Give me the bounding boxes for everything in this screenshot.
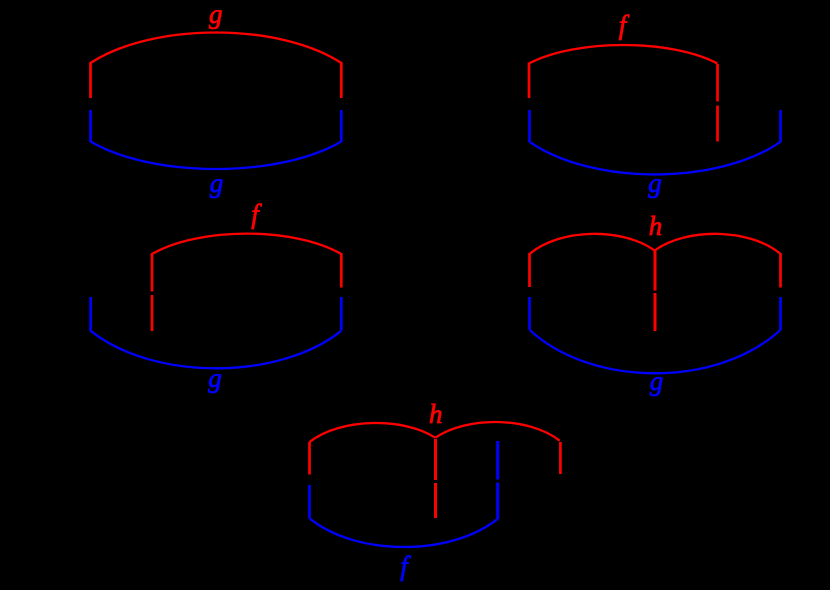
- group 1: red overbrace g: [91, 32, 342, 63]
- group 1: blue underbrace g: [91, 142, 342, 170]
- group 4: blue underbrace g: [530, 330, 781, 374]
- group 5: blue tall leg upper: [496, 441, 499, 480]
- group 5: blue underbrace left leg: [308, 485, 311, 518]
- group 4: red overbrace left leg: [528, 253, 531, 287]
- group 5: red center pointer upper: [434, 439, 437, 480]
- group 4: red overbrace h left arc: [530, 234, 655, 254]
- group 2: blue underbrace g: [530, 142, 781, 175]
- group 5: red center pointer lower: [434, 483, 437, 518]
- group 2: blue underbrace left leg: [528, 110, 531, 142]
- group 3: blue underbrace g: [91, 331, 342, 369]
- svg-text:g: g: [650, 366, 664, 396]
- group 5: red overbrace h left arc: [310, 423, 436, 442]
- group 3: red overbrace left long leg upper: [151, 253, 154, 292]
- group 3: red overbrace left long leg lower: [151, 295, 154, 331]
- group 4: red overbrace h right arc: [655, 234, 781, 254]
- group 3: blue underbrace left leg: [89, 297, 92, 331]
- group 4: red overbrace right leg: [779, 253, 782, 288]
- group 2: red overbrace right long leg upper: [716, 64, 719, 102]
- group 1: red overbrace right leg: [340, 62, 343, 98]
- group 1: blue underbrace left leg: [89, 110, 92, 142]
- group 2: blue underbrace right leg: [779, 110, 782, 142]
- group 5: blue tall leg lower: [496, 483, 499, 520]
- group 3: red overbrace f: [152, 234, 341, 254]
- group 4: red center pointer lower: [654, 293, 657, 331]
- group 5: red overbrace h right arc: [435, 422, 559, 441]
- svg-text:g: g: [648, 168, 662, 198]
- group 1: blue underbrace right leg: [340, 110, 343, 142]
- group 2: red overbrace f: [529, 45, 718, 64]
- group 2: red overbrace left leg: [528, 63, 531, 99]
- group 4: blue underbrace left leg: [528, 297, 531, 330]
- group 1: red overbrace left leg: [89, 62, 92, 98]
- group 5: red overbrace right leg: [559, 442, 562, 474]
- svg-text:h: h: [429, 399, 443, 429]
- group 5: red overbrace left leg: [308, 442, 311, 475]
- group 2: red overbrace right long leg lower: [716, 106, 719, 142]
- group 5: blue underbrace f: [310, 518, 498, 547]
- svg-text:g: g: [208, 363, 222, 393]
- svg-text:h: h: [649, 211, 663, 241]
- group 4: red center pointer upper: [654, 251, 657, 291]
- group 4: blue underbrace right leg: [779, 297, 782, 330]
- svg-text:g: g: [209, 0, 223, 29]
- group 3: red overbrace right leg: [340, 253, 343, 288]
- group 3: blue underbrace right leg: [340, 297, 343, 331]
- svg-text:g: g: [210, 168, 224, 198]
